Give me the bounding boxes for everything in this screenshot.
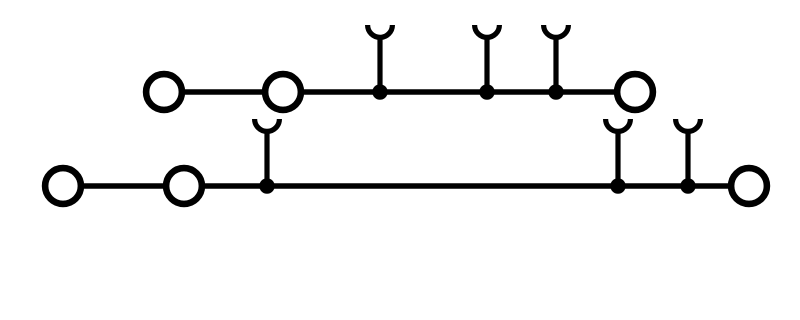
junction node J1 (top rail, x=380) bbox=[372, 84, 387, 99]
junction node J5 (bottom rail, x=618) bbox=[610, 178, 625, 193]
terminal circle X6 (bottom-right) bbox=[731, 168, 767, 204]
junction node J4 (bottom rail, x=267) bbox=[259, 178, 274, 193]
fork contact (plug connection) P6 on bottom rail at x=688 bbox=[676, 119, 701, 186]
fork contact (plug connection) P2 on top rail at x=487 bbox=[475, 25, 500, 92]
terminal circle X2 (top rail, second) bbox=[265, 74, 301, 110]
junction node J6 (bottom rail, x=688) bbox=[680, 178, 695, 193]
fork contact (plug connection) P1 on top rail at x=380 bbox=[368, 25, 393, 92]
terminal circle X1 (top-left) bbox=[146, 74, 182, 110]
terminal circle X5 (bottom rail, second) bbox=[166, 168, 202, 204]
fork contact (plug connection) P5 on bottom rail at x=618 bbox=[606, 119, 631, 186]
fork contact (plug connection) P4 on bottom rail at x=267 bbox=[255, 119, 280, 186]
wire: bottom rail from terminal X4 to terminal X6 bbox=[63, 183, 749, 189]
terminal circle X3 (top-right) bbox=[617, 74, 653, 110]
junction node J2 (top rail, x=487) bbox=[479, 84, 494, 99]
fork contact (plug connection) P3 on top rail at x=557 bbox=[544, 25, 569, 92]
terminal circle X4 (bottom-left) bbox=[45, 168, 81, 204]
wire: top rail from terminal X1 to terminal X3 bbox=[164, 89, 635, 95]
junction node J3 (top rail, x=557) bbox=[548, 84, 563, 99]
